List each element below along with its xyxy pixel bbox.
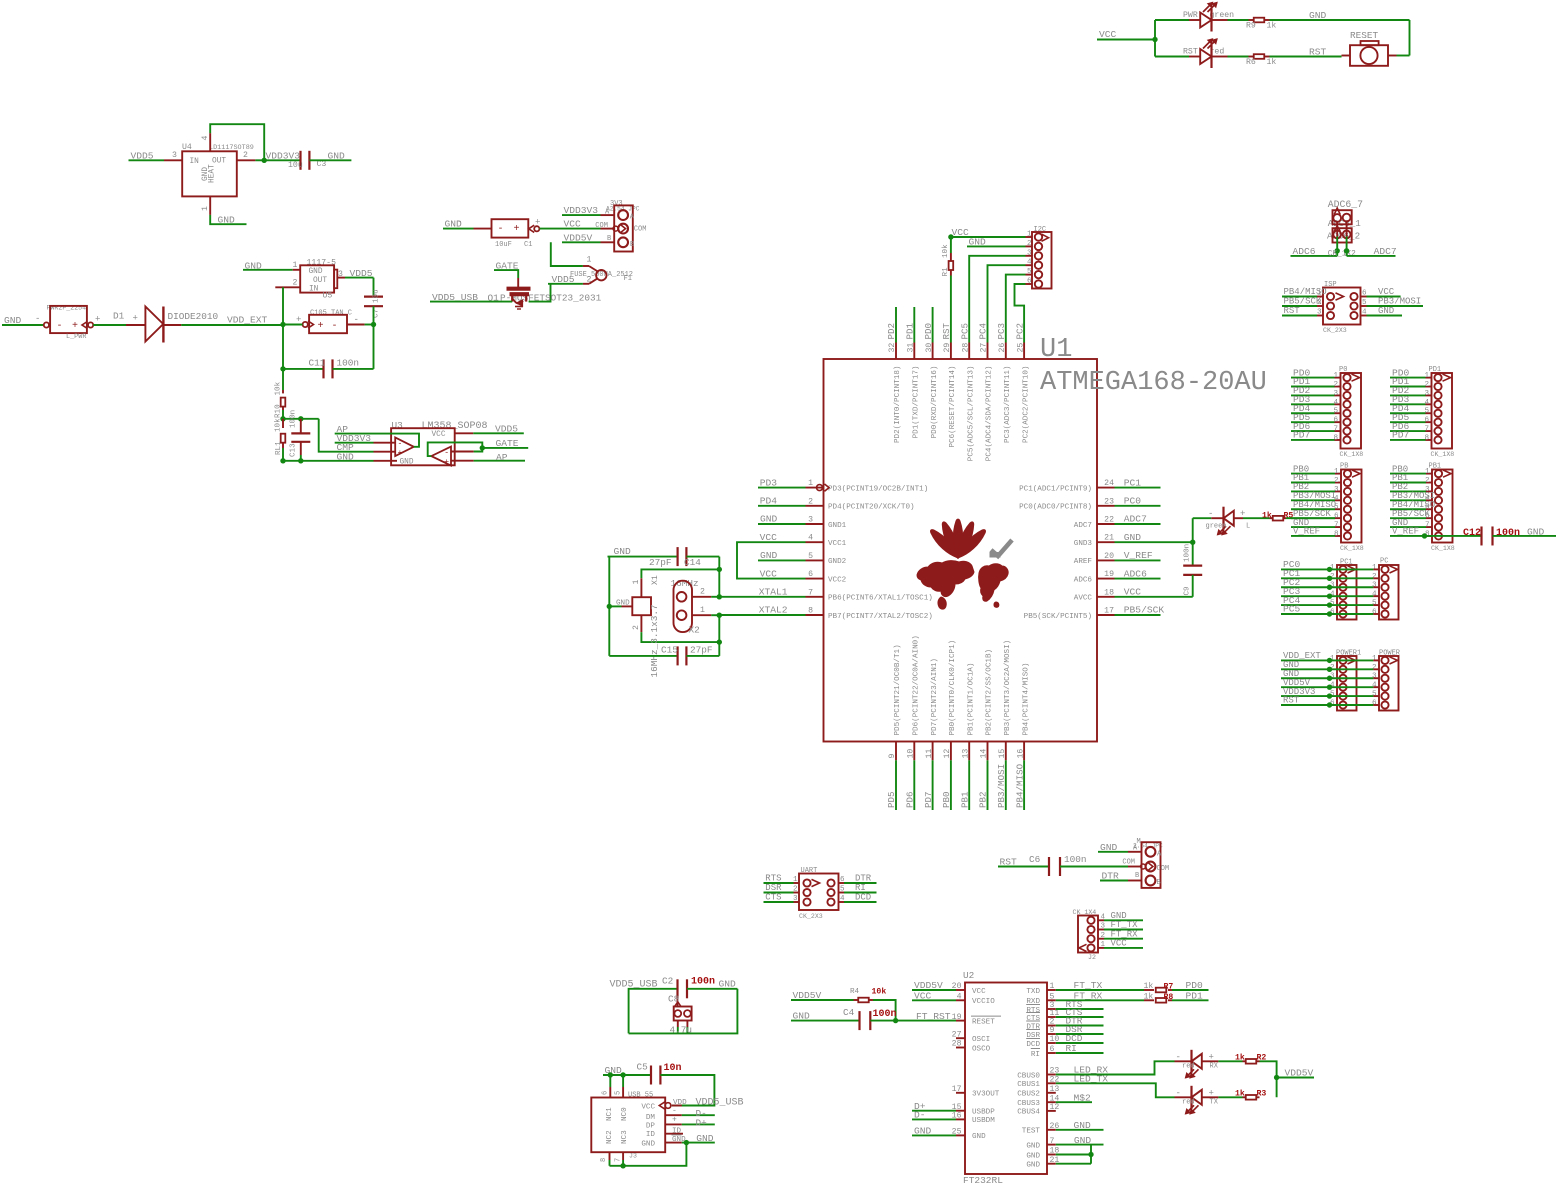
- svg-text:GND: GND: [972, 1133, 986, 1141]
- svg-text:FT232RL: FT232RL: [963, 1175, 1003, 1184]
- svg-text:CK_1X2: CK_1X2: [1328, 250, 1356, 258]
- pin 8 XTAL2 (left): [806, 614, 824, 616]
- capacitor C3 10u: [299, 151, 301, 170]
- wire PD0: [932, 307, 934, 343]
- node GND: [687, 988, 737, 990]
- PC1 pin 2 PC1: [1339, 575, 1346, 582]
- wire PC2: [1281, 586, 1373, 588]
- op-amp B triangle: [431, 447, 451, 466]
- pin 12 PB0 (bottom): [950, 742, 952, 761]
- svg-text:ADC7: ADC7: [1074, 522, 1092, 530]
- svg-text:GND2: GND2: [828, 558, 847, 566]
- svg-text:ATMEGA168-20AU: ATMEGA168-20AU: [1040, 368, 1267, 398]
- wire down to C11: [282, 325, 284, 369]
- svg-text:F1: F1: [624, 275, 632, 283]
- svg-text:1: 1: [1027, 231, 1032, 239]
- POWER1 pin 5 VDD3V3: [1339, 692, 1346, 699]
- U2 pin 16 USBDM (left): [956, 1118, 965, 1120]
- svg-text:7: 7: [1334, 522, 1339, 530]
- svg-text:GND: GND: [400, 459, 414, 467]
- pin 16 PB4/MISO (bottom): [1023, 742, 1025, 761]
- svg-text:U5: U5: [323, 292, 333, 301]
- wire GND: [1281, 677, 1373, 679]
- svg-text:R3: R3: [1257, 1089, 1267, 1098]
- wire to PB5/SCK header: [1286, 517, 1335, 519]
- svg-text:7: 7: [808, 588, 813, 597]
- svg-text:+: +: [133, 314, 138, 324]
- pin 6 VCC (left): [806, 578, 824, 580]
- wire VDD3V3: [1281, 695, 1373, 697]
- svg-text:VCC: VCC: [972, 988, 986, 996]
- wire PC2 to I2C-6: [1015, 284, 1026, 343]
- pin 17 PB5/SCK (right): [1097, 614, 1115, 616]
- pin 4 VCC (left): [806, 541, 824, 543]
- svg-text:6: 6: [1424, 417, 1429, 425]
- PB1 pin 4 PB3/MOSI: [1435, 497, 1442, 504]
- svg-text:10u: 10u: [373, 289, 381, 303]
- svg-text:C2: C2: [662, 976, 673, 987]
- svg-text:HEAT: HEAT: [209, 164, 217, 183]
- svg-text:RST: RST: [1309, 47, 1327, 58]
- svg-text:R7: R7: [1164, 983, 1174, 992]
- wire V_REF: [1115, 559, 1161, 561]
- P0 pin 2 PD1: [1343, 383, 1350, 390]
- U2 pin 26 TEST (right): [1047, 1129, 1056, 1131]
- PB1 pin 7 GND: [1435, 523, 1442, 530]
- svg-text:PB0(PCINT0/CLK0/ICP1): PB0(PCINT0/CLK0/ICP1): [949, 640, 957, 736]
- svg-text:GND: GND: [760, 550, 778, 561]
- svg-text:RL1: RL1: [275, 441, 283, 455]
- svg-text:-: -: [354, 315, 359, 325]
- P0 pin 1 PD0: [1343, 374, 1350, 381]
- svg-text:6: 6: [1027, 278, 1032, 286]
- crystal case square: [632, 597, 651, 615]
- capacitor C8 4.7u polarized: [677, 998, 679, 1006]
- svg-text:green: green: [1206, 523, 1227, 531]
- wire VDD5V to fuse: [551, 242, 583, 266]
- svg-text:PD4(PCINT20/XCK/T0): PD4(PCINT20/XCK/T0): [828, 504, 915, 512]
- svg-text:RST: RST: [1183, 48, 1198, 57]
- svg-text:RST: RST: [1283, 696, 1300, 706]
- svg-text:9: 9: [888, 754, 897, 759]
- svg-text:VDD5: VDD5: [552, 274, 575, 285]
- capacitor C15 27pF: [609, 655, 677, 657]
- logo petals: [928, 527, 962, 561]
- svg-text:1: 1: [700, 606, 705, 615]
- svg-text:5: 5: [615, 1091, 623, 1095]
- svg-text:TX: TX: [1210, 1098, 1219, 1106]
- resistor R6 1k: [1249, 56, 1255, 58]
- svg-text:2: 2: [1333, 381, 1338, 389]
- svg-text:1: 1: [1050, 982, 1055, 991]
- pin 13 PB1 (bottom): [968, 742, 970, 761]
- capacitor C13 100n: [300, 419, 302, 434]
- PD1 pin 1 PD0: [1434, 374, 1441, 381]
- svg-text:7: 7: [1425, 522, 1430, 530]
- svg-text:COM: COM: [634, 226, 647, 234]
- svg-text:C105_TAN_C: C105_TAN_C: [310, 310, 352, 318]
- pin 21 GND (right): [1097, 541, 1115, 543]
- svg-text:8: 8: [600, 1158, 608, 1162]
- wire loop: [629, 989, 738, 1034]
- svg-text:-: -: [57, 321, 63, 332]
- pin 25 PC2 (top): [1023, 343, 1025, 360]
- svg-text:USBDM: USBDM: [972, 1117, 995, 1125]
- U2 pin 21 GND (right): [1047, 1163, 1056, 1165]
- svg-text:GND: GND: [218, 214, 236, 225]
- svg-text:GND: GND: [309, 268, 323, 276]
- svg-text:PB7(PCINT7/XTAL2/TOSC2): PB7(PCINT7/XTAL2/TOSC2): [828, 613, 933, 621]
- node GATE: [482, 447, 528, 449]
- svg-text:+: +: [1209, 1052, 1214, 1062]
- wire PC0: [1281, 568, 1373, 570]
- svg-text:DM: DM: [646, 1114, 656, 1122]
- wire GND: [1281, 668, 1373, 670]
- svg-text:2: 2: [1425, 477, 1430, 485]
- svg-text:GND: GND: [1026, 1152, 1040, 1160]
- svg-text:L: L: [1246, 523, 1250, 531]
- svg-text:CTS: CTS: [1026, 1015, 1040, 1023]
- POWER pin 6 RST: [1381, 701, 1388, 708]
- svg-text:B: B: [630, 241, 634, 249]
- svg-text:2: 2: [808, 497, 813, 506]
- wire C5 to VDD: [660, 1075, 714, 1106]
- POWER1 pin 6 RST: [1339, 701, 1346, 708]
- PB1 pin 3 PB2: [1435, 488, 1442, 495]
- svg-text:+: +: [296, 315, 301, 325]
- P0 pin 5 PD4: [1343, 410, 1350, 417]
- U2 pin 13 CBUS2 (right): [1047, 1092, 1056, 1094]
- PC pin 4 PC3: [1381, 593, 1388, 600]
- svg-text:U1: U1: [1040, 335, 1072, 365]
- svg-text:GND: GND: [1026, 1162, 1040, 1170]
- U2 pin 2 DTR (right): [1047, 1025, 1056, 1027]
- svg-text:C3: C3: [317, 160, 327, 169]
- svg-text:1k: 1k: [1267, 57, 1277, 67]
- svg-text:V_REF: V_REF: [1293, 527, 1320, 537]
- svg-text:CK_2X3: CK_2X3: [1323, 327, 1347, 334]
- wire ADC7: [1346, 222, 1348, 237]
- svg-text:CK_1X8: CK_1X8: [1340, 545, 1364, 552]
- svg-text:PC5: PC5: [1283, 604, 1301, 615]
- svg-text:3: 3: [808, 516, 813, 525]
- pin 31 PD1 (top): [913, 343, 915, 360]
- svg-text:RESET: RESET: [972, 1018, 995, 1026]
- svg-text:19: 19: [1104, 570, 1114, 579]
- svg-text:PB4/MISO: PB4/MISO: [1014, 763, 1025, 808]
- PB pin 1 PB0: [1344, 470, 1351, 477]
- svg-text:GND: GND: [696, 1133, 714, 1144]
- PB pin 2 PB1: [1344, 479, 1351, 486]
- svg-text:OSCI: OSCI: [972, 1036, 990, 1044]
- pin 30 PD0 (top): [932, 343, 934, 360]
- U2 pin 5 RXD (right): [1047, 999, 1056, 1001]
- svg-text:ID: ID: [646, 1131, 656, 1139]
- svg-text:2: 2: [1372, 664, 1377, 672]
- svg-text:DIODE2010: DIODE2010: [168, 311, 219, 322]
- pin 28 PC5 (top): [968, 343, 970, 360]
- svg-text:DTR: DTR: [1026, 1023, 1040, 1031]
- svg-text:VCC: VCC: [760, 568, 778, 579]
- LED L green: [1193, 517, 1212, 519]
- svg-text:10n: 10n: [664, 1063, 682, 1074]
- wire ADC6: [1336, 222, 1338, 237]
- svg-text:17: 17: [952, 1085, 962, 1094]
- svg-text:+: +: [535, 217, 540, 227]
- svg-text:1: 1: [1333, 372, 1338, 380]
- svg-text:NC1: NC1: [606, 1107, 614, 1121]
- capacitor C11 100n: [283, 368, 324, 370]
- pin 14 PB2 (bottom): [987, 742, 989, 761]
- wire divider: [282, 369, 284, 390]
- capacitor C1 10uF block: [474, 228, 492, 230]
- svg-text:PB1: PB1: [959, 791, 970, 808]
- PB pin 8 V_REF: [1344, 532, 1351, 539]
- svg-text:4.7u: 4.7u: [670, 1025, 693, 1036]
- node AP right: [451, 460, 474, 462]
- PB1 pin 8 V_REF: [1435, 532, 1442, 539]
- svg-text:TEST: TEST: [1022, 1128, 1041, 1136]
- U2 pin 20 VCC (left): [956, 989, 965, 991]
- svg-text:16MHz_3.1x3.7: 16MHz_3.1x3.7: [649, 604, 660, 677]
- PB pin 4 PB3/MOSI: [1344, 497, 1351, 504]
- svg-text:red: red: [1182, 1062, 1195, 1070]
- svg-text:D1: D1: [113, 311, 125, 322]
- pin 32 PD2 (top): [895, 343, 897, 360]
- svg-text:PD0(RXD/PCINT16): PD0(RXD/PCINT16): [931, 366, 939, 439]
- svg-text:PC6(RESET/PCINT14): PC6(RESET/PCINT14): [949, 366, 957, 448]
- PC pin 2 PC1: [1381, 575, 1388, 582]
- POWER1 pin 2 GND: [1339, 666, 1346, 673]
- svg-text:30: 30: [925, 343, 934, 353]
- svg-text:3: 3: [793, 895, 798, 903]
- svg-text:CBUS4: CBUS4: [1017, 1109, 1040, 1117]
- logo map east: [979, 564, 1009, 602]
- wire PC3: [1281, 595, 1373, 597]
- junction: [1190, 540, 1195, 545]
- wire GND left vertical: [608, 557, 610, 656]
- svg-text:PB2(PCINT2/SS/OC1B): PB2(PCINT2/SS/OC1B): [986, 649, 994, 736]
- svg-text:CBUS1: CBUS1: [1017, 1081, 1040, 1089]
- pin 22 ADC7 (right): [1097, 523, 1115, 525]
- svg-text:13: 13: [1050, 1085, 1060, 1094]
- svg-text:R10: R10: [275, 404, 283, 418]
- svg-text:ADC6_7: ADC6_7: [1328, 199, 1363, 210]
- wire GND to reset-switch net: [1270, 19, 1410, 21]
- svg-text:GND: GND: [328, 151, 346, 162]
- svg-text:COM: COM: [595, 222, 608, 230]
- svg-text:VCC: VCC: [432, 431, 446, 439]
- pin 10 PD6 (bottom): [913, 742, 915, 761]
- resistor RL1 10k: [282, 419, 284, 428]
- svg-text:RESET: RESET: [1350, 30, 1379, 41]
- svg-text:16: 16: [1016, 749, 1025, 759]
- svg-text:PB2: PB2: [978, 791, 989, 808]
- PB pin 6 PB5/SCK: [1344, 515, 1351, 522]
- svg-text:PB3/MOSI: PB3/MOSI: [996, 764, 1007, 808]
- svg-text:24: 24: [1104, 479, 1114, 488]
- svg-text:-: -: [444, 449, 449, 458]
- U2 pin 1 TXD (right): [1047, 989, 1056, 991]
- svg-text:6: 6: [1334, 513, 1339, 521]
- resistor R3 1k: [1218, 1096, 1242, 1098]
- svg-text:+: +: [318, 321, 324, 332]
- U2 pin 4 VCCIO (left): [956, 999, 965, 1001]
- svg-text:AREF: AREF: [1074, 558, 1093, 566]
- svg-text:PD1(TXD/PCINT17): PD1(TXD/PCINT17): [913, 366, 921, 439]
- svg-text:5: 5: [1372, 691, 1377, 699]
- svg-text:AVCC: AVCC: [1074, 595, 1093, 603]
- svg-text:PD5: PD5: [886, 791, 897, 808]
- logo map west: [917, 561, 974, 597]
- J3 DM pin / node D-: [665, 1114, 682, 1116]
- junction VDD_EXT: [280, 322, 285, 327]
- header ADC6_2 CK_1X2: [1333, 228, 1352, 242]
- svg-text:PD7: PD7: [923, 791, 934, 808]
- pin 1 PD3 (left): [806, 487, 824, 489]
- op-amp A triangle: [395, 438, 414, 457]
- capacitor C9 100n: [1183, 564, 1202, 566]
- svg-text:4: 4: [808, 534, 813, 543]
- PC1 pin 6 PC5: [1339, 610, 1346, 617]
- svg-text:2: 2: [632, 625, 641, 630]
- pin 7 XTAL1 (left): [806, 596, 824, 598]
- svg-text:VCC2: VCC2: [828, 576, 847, 584]
- crystal pin2 to XTAL1: [692, 596, 711, 598]
- svg-text:100n: 100n: [691, 977, 715, 988]
- svg-text:COM: COM: [1157, 865, 1170, 873]
- svg-text:R8: R8: [1164, 993, 1174, 1002]
- svg-text:V_REF: V_REF: [1124, 550, 1153, 561]
- svg-text:PC1(ADC1/PCINT9): PC1(ADC1/PCINT9): [1019, 485, 1092, 493]
- wire RST through R1: [950, 276, 952, 343]
- svg-text:RI: RI: [1031, 1051, 1040, 1059]
- svg-text:+: +: [72, 321, 78, 332]
- resistor R10 10k: [282, 390, 284, 393]
- svg-text:ADC6: ADC6: [1074, 576, 1093, 584]
- svg-text:15: 15: [998, 749, 1007, 759]
- svg-text:4: 4: [1027, 259, 1032, 267]
- PC pin 1 PC0: [1381, 566, 1388, 573]
- svg-text:7: 7: [1424, 426, 1429, 434]
- svg-text:10: 10: [907, 749, 916, 759]
- PD1 pin 8 PD7: [1434, 436, 1441, 443]
- crystal pin2 loop: [640, 615, 642, 632]
- wire PC4: [1281, 604, 1373, 606]
- svg-text:PD2(INT0/PCINT18): PD2(INT0/PCINT18): [894, 366, 902, 443]
- PD1 pin 4 PD3: [1434, 401, 1441, 408]
- U2 pin 28 OSCO (left): [956, 1047, 965, 1049]
- svg-text:ADC6: ADC6: [1293, 246, 1316, 257]
- resistor R1 10k: [950, 271, 952, 276]
- svg-text:-: -: [35, 314, 40, 324]
- pin 11 PD7 (bottom): [932, 742, 934, 761]
- svg-text:PB5(SCK/PCINT5): PB5(SCK/PCINT5): [1024, 613, 1092, 621]
- svg-text:6: 6: [1050, 1045, 1055, 1054]
- resistor R2 1k: [1218, 1060, 1242, 1062]
- svg-text:GND1: GND1: [828, 522, 847, 530]
- pin 27 PC4 (top): [987, 343, 989, 360]
- svg-text:VCCIO: VCCIO: [972, 998, 995, 1006]
- svg-text:5: 5: [1050, 993, 1055, 1002]
- POWER pin 1 VDD_EXT: [1381, 657, 1388, 664]
- op-amp B output loop to GATE: [428, 442, 483, 456]
- svg-text:C12: C12: [1463, 528, 1481, 539]
- svg-text:3: 3: [1027, 249, 1032, 257]
- wire shield to GND: [610, 1143, 687, 1166]
- svg-text:12: 12: [1050, 1103, 1060, 1112]
- svg-text:2: 2: [700, 588, 705, 597]
- svg-text:5: 5: [808, 552, 813, 561]
- svg-text:10uF: 10uF: [495, 241, 512, 249]
- svg-text:VCC: VCC: [564, 219, 582, 230]
- svg-text:4: 4: [1333, 399, 1338, 407]
- pin 29 RST (top): [950, 343, 952, 360]
- wire to D1: [93, 324, 126, 326]
- PC1 pin 1 PC0: [1339, 566, 1346, 573]
- PD1 pin 6 PD5: [1434, 419, 1441, 426]
- svg-text:3: 3: [1372, 582, 1377, 590]
- svg-text:C11: C11: [309, 357, 326, 368]
- node VCC wire to selector: [540, 228, 601, 230]
- capacitor C7 10u: [364, 296, 383, 298]
- PC pin 5 PC4: [1381, 601, 1388, 608]
- U2 pin 18 GND (right): [1047, 1154, 1056, 1156]
- svg-text:5: 5: [1027, 268, 1032, 276]
- pin 24 PC1 (right): [1097, 487, 1115, 489]
- svg-text:CK_1X8: CK_1X8: [1340, 451, 1364, 458]
- svg-text:GND: GND: [1527, 527, 1545, 538]
- svg-text:PB6(PCINT6/XTAL1/TOSC1): PB6(PCINT6/XTAL1/TOSC1): [828, 595, 933, 603]
- logo map africa: [938, 597, 946, 609]
- svg-text:10k: 10k: [275, 418, 283, 432]
- svg-text:OUT: OUT: [313, 277, 327, 285]
- POWER pin 3 GND: [1381, 675, 1388, 682]
- PC1 pin 4 PC3: [1339, 593, 1346, 600]
- svg-text:CBUS0: CBUS0: [1017, 1072, 1040, 1080]
- svg-text:PB4(PCINT4/MISO): PB4(PCINT4/MISO): [1022, 663, 1030, 736]
- svg-text:100n: 100n: [337, 357, 360, 368]
- svg-text:4: 4: [1362, 309, 1367, 317]
- U2 pin 9 DSR (right): [1047, 1033, 1056, 1035]
- svg-text:17: 17: [1104, 607, 1114, 616]
- svg-text:2: 2: [293, 279, 298, 288]
- wire PC3 to I2C-5: [1006, 275, 1026, 343]
- svg-text:3: 3: [172, 151, 177, 160]
- svg-text:R4: R4: [850, 988, 860, 996]
- svg-text:25: 25: [1016, 343, 1025, 353]
- svg-text:-: -: [398, 439, 403, 448]
- svg-text:R1: R1: [942, 267, 950, 277]
- svg-text:GND: GND: [719, 979, 737, 990]
- pin1 marker: [817, 485, 823, 491]
- svg-text:B: B: [607, 235, 611, 243]
- svg-text:A2.54 JPC: A2.54 JPC: [606, 206, 640, 213]
- svg-text:7: 7: [1333, 426, 1338, 434]
- svg-text:23: 23: [1104, 497, 1114, 506]
- svg-text:3V3OUT: 3V3OUT: [972, 1091, 1000, 1099]
- U2 pin 22 CBUS1 (right): [1047, 1082, 1056, 1084]
- POWER pin 4 VDD5V: [1381, 684, 1388, 691]
- U2 pin 27 OSCI (left): [956, 1037, 965, 1039]
- POWER1 pin 3 GND: [1339, 675, 1346, 682]
- svg-text:C1: C1: [524, 241, 532, 249]
- svg-text:2: 2: [243, 151, 248, 160]
- pin1 GND down: [209, 196, 211, 215]
- svg-text:4: 4: [957, 993, 962, 1002]
- wire PC4 to I2C-4: [988, 265, 1026, 342]
- svg-text:11: 11: [925, 749, 934, 759]
